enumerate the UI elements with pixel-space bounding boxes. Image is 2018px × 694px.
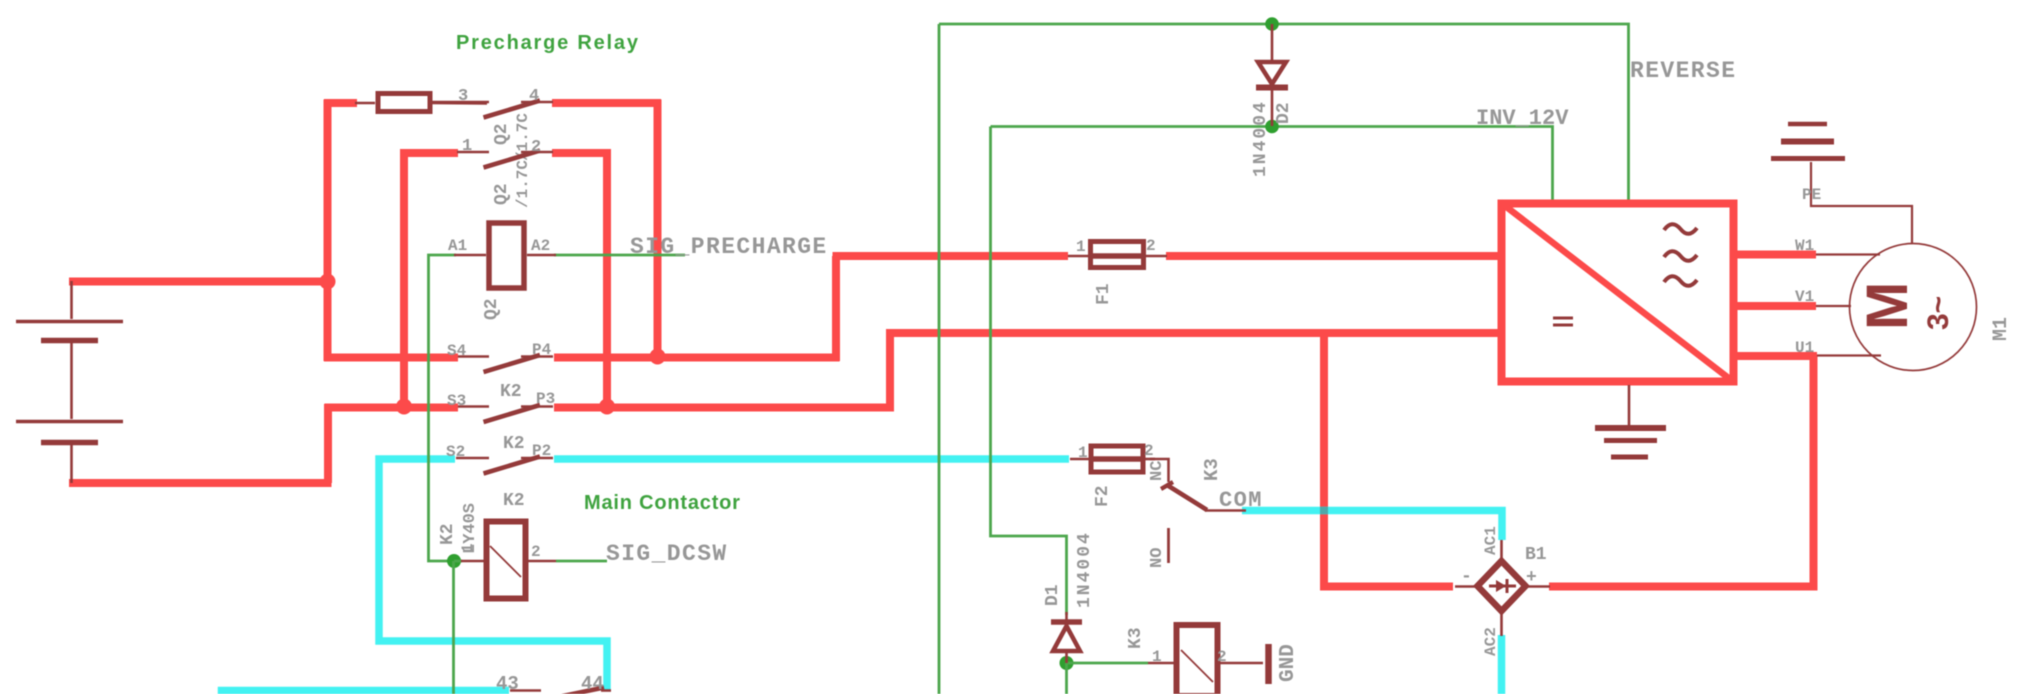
svg-text:P4: P4: [532, 341, 552, 359]
rectifier B1 diamond: [1478, 561, 1526, 611]
wire K2 coil pin1 to coil: [454, 560, 462, 563]
diode D1 cathode bar: [1051, 619, 1082, 625]
svg-text:SIG_DCSW: SIG_DCSW: [606, 541, 728, 567]
label W1: [1795, 237, 1814, 255]
label K3 pin 1: [1152, 648, 1162, 666]
svg-text:Main Contactor: Main Contactor: [584, 492, 741, 514]
label D1 rotated: [1043, 584, 1063, 606]
label B1: [1525, 545, 1547, 565]
wire cyan bottom row: [222, 691, 510, 694]
label K2 (below S2): [503, 491, 525, 511]
svg-text:1: 1: [1152, 648, 1162, 666]
wire SIG_DCSW stub: [556, 560, 607, 563]
wire S2 cyan left + down + bottom loop: [379, 459, 607, 691]
label F1 pin 1: [1076, 238, 1086, 256]
label S2: [446, 443, 465, 461]
wire battery- vertical: [324, 404, 332, 483]
rectifier B1 pin AC1: [1500, 540, 1503, 562]
svg-text:1: 1: [1078, 444, 1088, 462]
junction S4/P4 row: [650, 349, 666, 365]
label F1 rotated: [1094, 283, 1114, 305]
label A1: [448, 237, 467, 255]
earth PE line2: [1781, 139, 1834, 145]
svg-text:P3: P3: [536, 390, 555, 408]
svg-text:K2: K2: [503, 491, 525, 511]
contact K3 NO pin: [1167, 528, 1170, 563]
relay coil K2 body: [487, 522, 526, 599]
svg-text:D2: D2: [1274, 102, 1294, 124]
rectifier B1 inner diode: [1489, 579, 1516, 593]
wire SIG_PRECHARGE net from A1 down to K2 coil: [429, 255, 457, 561]
relay coil Q2 body: [489, 223, 524, 288]
wire INV_12V vertical to D1: [991, 127, 1067, 616]
wire S4 row left: [324, 354, 458, 362]
battery cell1 short plate: [41, 338, 98, 344]
wire INV_12V net: [991, 127, 1553, 202]
label D2 rotated: [1274, 102, 1294, 124]
svg-text:/1.7C: /1.7C: [514, 160, 532, 208]
label NC rotated: [1148, 461, 1167, 481]
label F2 pin 2: [1144, 442, 1154, 460]
svg-text:COM: COM: [1219, 488, 1263, 513]
svg-text:A2: A2: [531, 237, 550, 255]
wire S4 row right to F1 riser: [554, 354, 840, 362]
svg-text:44: 44: [581, 673, 604, 694]
label coil pin 2: [531, 543, 541, 561]
svg-text:P2: P2: [532, 442, 551, 460]
svg-text:2: 2: [1146, 237, 1156, 255]
svg-text:Q2: Q2: [492, 123, 512, 145]
text Precharge Relay: [456, 32, 640, 54]
svg-text:K3: K3: [1201, 458, 1223, 481]
label U1: [1795, 339, 1814, 357]
coil Q2 pin A2: [527, 254, 556, 257]
label pin 2: [531, 138, 541, 157]
label A2: [531, 237, 550, 255]
motor M glyph rotated: [1855, 282, 1920, 330]
coil K2 pin 1: [461, 560, 484, 563]
svg-text:B1: B1: [1525, 545, 1547, 565]
coil K3 diagonal: [1181, 650, 1213, 682]
diode D1 lead bottom: [1065, 651, 1068, 663]
fuse F1 pins: [1068, 255, 1167, 258]
label K2 (S3 contact): [500, 382, 522, 402]
svg-text:D1: D1: [1043, 584, 1063, 606]
resistor pin left: [355, 102, 375, 105]
label GND rotated: [1277, 644, 1300, 682]
svg-text:F2: F2: [1093, 485, 1113, 507]
label AC2 rotated: [1482, 627, 1500, 656]
label M1 rotated: [1990, 317, 2013, 341]
motor 3~ glyph rotated: [1922, 296, 1955, 330]
label K2 (S2 contact): [503, 434, 525, 454]
wire contact4 to S4 junction: horizontal: [552, 99, 661, 107]
diode D2 cathode bar: [1256, 85, 1288, 91]
inverter diagonal: [1500, 202, 1735, 383]
svg-text:K2: K2: [503, 434, 525, 454]
wire pins2 loop: [552, 153, 607, 408]
coil K3 pin 2 line: [1219, 662, 1263, 665]
svg-text:Precharge Relay: Precharge Relay: [456, 32, 640, 54]
motor PE wire: [1811, 162, 1912, 244]
contact K2 S4-P4: [458, 355, 553, 372]
svg-text:M: M: [1855, 282, 1920, 330]
wire battery- bottom: [69, 479, 332, 487]
svg-text:U1: U1: [1795, 339, 1814, 357]
svg-text:INV_12V: INV_12V: [1476, 106, 1569, 131]
inverter AC tilde 1: [1664, 224, 1697, 234]
svg-text:V1: V1: [1795, 288, 1814, 306]
wire REVERSE net top: [939, 24, 1629, 201]
wire riser to F1 row: [832, 256, 840, 361]
label 44: [581, 673, 604, 694]
svg-text:W1: W1: [1795, 237, 1814, 255]
wire resistor row stub: [324, 99, 357, 107]
svg-text:3~: 3~: [1922, 296, 1955, 330]
wire F1 row left: [833, 252, 1069, 260]
wire D1 junction to K3 coil pin1: [1067, 662, 1149, 665]
svg-text:S4: S4: [447, 342, 467, 360]
motor pin U1: [1817, 354, 1881, 356]
wire pins1 loop: [404, 153, 458, 408]
label Q2 (contact 3-4) rotated: [492, 123, 512, 145]
crossing blend red/cyan: [1320, 507, 1328, 515]
label 1N4004 (D1) rotated: [1075, 531, 1095, 608]
fuse F2 body: [1090, 446, 1143, 472]
junction S3 row right: [599, 399, 615, 415]
svg-text:3: 3: [458, 87, 468, 106]
wire P2 cyan row to F2: [554, 455, 1069, 463]
svg-text:2: 2: [1144, 442, 1154, 460]
label 43: [496, 673, 519, 694]
wire contact4 vertical: [654, 100, 662, 358]
inverter ground pin: [1628, 385, 1631, 425]
label PE: [1802, 186, 1821, 204]
wire D1 junction down: [1065, 663, 1068, 694]
svg-text:-: -: [1461, 567, 1472, 587]
label K2 coil rotated: [438, 523, 458, 545]
svg-text:2: 2: [1217, 648, 1227, 666]
contact Q2 3-4: [432, 101, 553, 118]
svg-text:REVERSE: REVERSE: [1630, 58, 1736, 84]
diode D2 lead bottom: [1271, 90, 1274, 126]
contact K3 NC pin: [1150, 459, 1169, 482]
label SIG_PRECHARGE: [630, 234, 828, 260]
contact K3 NC tip: [1161, 482, 1173, 489]
wire REVERSE net long vertical: [938, 24, 941, 694]
svg-text:NC: NC: [1148, 461, 1167, 481]
wire U1 row: [1733, 352, 1817, 360]
label plus: [1526, 568, 1537, 588]
motor pin V1: [1816, 305, 1851, 307]
label F1 pin 2: [1146, 237, 1156, 255]
battery cell2 long plate: [16, 420, 123, 423]
wire S3 row left: [325, 404, 459, 412]
label REVERSE: [1630, 58, 1736, 84]
label V1: [1795, 288, 1814, 306]
text Main Contactor: [584, 492, 741, 514]
junction K2 coil pin1: [447, 554, 461, 568]
contact K3 blade: [1167, 485, 1207, 510]
label pin 3: [458, 87, 468, 106]
svg-text:4: 4: [529, 87, 539, 106]
label F2 rotated: [1093, 485, 1113, 507]
svg-text:NO: NO: [1148, 548, 1167, 568]
wire F1 row right to inverter: [1166, 252, 1501, 260]
battery cell2 short plate: [41, 440, 98, 446]
wire V1 row: [1733, 302, 1816, 310]
junction D2 anode: [1265, 17, 1279, 31]
contact K2 S3-P3: [458, 405, 553, 422]
contact Q2 1-2: [457, 151, 553, 168]
svg-text:AC1: AC1: [1482, 526, 1500, 555]
junction battery+ / precharge loop: [320, 274, 336, 290]
battery cell1 long plate: [16, 320, 123, 323]
rectifier B1 pin AC2: [1500, 610, 1503, 636]
svg-text:PE: PE: [1802, 186, 1821, 204]
battery middle lead: [70, 343, 73, 419]
svg-text:1N4004: 1N4004: [1075, 531, 1095, 608]
label K3 coil rotated: [1126, 627, 1146, 649]
label 1N4004 (D2) rotated: [1251, 100, 1271, 177]
label pin 1: [462, 137, 472, 156]
fuse F1 body: [1090, 242, 1144, 268]
svg-text:GND: GND: [1277, 644, 1300, 682]
junction D1 anode / K3 coil: [1060, 656, 1074, 670]
label /1.7C (contact 1-2) rotated: [514, 160, 532, 208]
svg-text:M1: M1: [1990, 317, 2013, 341]
wire S3 row right and riser to DC- row: [554, 333, 1501, 408]
inverter AC tilde 2: [1664, 251, 1697, 261]
wire K2 coil pin1 down: [452, 561, 455, 694]
junction S3 row left: [396, 399, 412, 415]
label F2 pin 1: [1078, 444, 1088, 462]
svg-text:K3: K3: [1126, 627, 1146, 649]
battery B- lead: [70, 445, 73, 483]
label P4: [532, 341, 552, 359]
svg-text:A1: A1: [448, 237, 467, 255]
svg-text:AC2: AC2: [1482, 627, 1500, 656]
svg-text:K2: K2: [438, 523, 458, 545]
svg-text:Q2: Q2: [482, 298, 502, 320]
ground GND bar: [1265, 644, 1272, 684]
diode D2 triangle: [1258, 62, 1286, 84]
diode D1 triangle: [1053, 626, 1080, 651]
rectifier B1 pin plus: [1524, 585, 1550, 588]
inverter DC symbol: [1553, 318, 1573, 325]
motor M1 circle: [1850, 244, 1977, 371]
label K3 pin 2: [1217, 648, 1227, 666]
label LY40S rotated: [461, 503, 480, 554]
wire COM cyan to B1 AC1: [1242, 511, 1502, 541]
label pin 4: [529, 87, 539, 106]
svg-text:S3: S3: [447, 392, 466, 410]
label minus: [1461, 567, 1472, 587]
label S4: [447, 342, 467, 360]
relay coil K3 body: [1177, 625, 1218, 694]
wire A2 SIG_PRECHARGE stub: [554, 254, 685, 257]
rectifier B1 pin minus: [1455, 585, 1478, 588]
svg-text:SIG_PRECHARGE: SIG_PRECHARGE: [630, 234, 828, 260]
label Q2 (contact 1-2) rotated: [492, 183, 512, 205]
junction D2 cathode: [1265, 120, 1279, 134]
label P2: [532, 442, 551, 460]
battery B+ lead: [70, 281, 73, 319]
label SIG_DCSW: [606, 541, 728, 567]
label AC1 rotated: [1482, 526, 1500, 555]
label Q2 coil rotated: [482, 298, 502, 320]
svg-text:S2: S2: [446, 443, 465, 461]
svg-text:2: 2: [531, 543, 541, 561]
svg-text:F1: F1: [1094, 283, 1114, 305]
fuse F2 pins: [1070, 458, 1155, 461]
resistor pin right: [431, 102, 487, 105]
earth PE line1: [1788, 122, 1827, 127]
coil K3 pin 1 line: [1148, 662, 1175, 665]
contact K2 S2-P2: [456, 457, 553, 474]
svg-text:2: 2: [531, 138, 541, 157]
label /1.7C (contact 3-4) rotated: [514, 113, 532, 161]
earth PE line3: [1771, 156, 1845, 161]
inverter box: [1502, 204, 1734, 382]
wire B1 AC2 cyan down: [1498, 635, 1506, 694]
coil Q2 pin A1: [454, 254, 486, 257]
wire contact1 stub: [403, 150, 405, 154]
label COM: [1219, 488, 1263, 513]
svg-text:1: 1: [459, 543, 477, 553]
wire battery+ vertical to resistor row and S4 row: [324, 100, 332, 362]
wire B1+ to U1 riser: [1549, 356, 1814, 587]
label P3: [536, 390, 555, 408]
svg-text:Q2: Q2: [492, 183, 512, 205]
wire DC- drop to B1: [1324, 333, 1453, 587]
wire battery+ top: [69, 278, 328, 286]
diode D1 lead top: [1065, 612, 1068, 622]
svg-text:1N4004: 1N4004: [1251, 100, 1271, 177]
coil K2 pin 2: [527, 560, 556, 563]
ground symbol below inverter: [1595, 428, 1666, 457]
inverter AC tilde 3: [1664, 276, 1697, 286]
svg-text:+: +: [1526, 568, 1537, 588]
label S3: [447, 392, 466, 410]
contact 43-44 pins: [510, 688, 611, 694]
svg-text:1: 1: [1076, 238, 1086, 256]
label K3 contact rotated: [1201, 458, 1223, 481]
label coil pin 1 rotated: [459, 543, 477, 553]
svg-text:K2: K2: [500, 382, 522, 402]
contact K3 COM pin: [1205, 509, 1246, 512]
svg-text:43: 43: [496, 673, 519, 694]
motor pin W1: [1816, 253, 1880, 255]
resistor precharge body: [378, 94, 430, 112]
wire W1 row: [1733, 251, 1816, 259]
diode D2 lead top: [1271, 24, 1274, 62]
coil K2 diagonal: [490, 546, 521, 577]
svg-text:1: 1: [462, 137, 472, 156]
label NO rotated: [1148, 548, 1167, 568]
label INV_12V: [1476, 106, 1569, 131]
